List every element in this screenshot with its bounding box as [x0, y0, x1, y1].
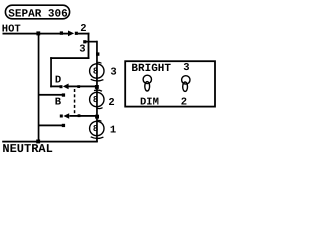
bulb icon left base ellipse — [145, 82, 150, 91]
svg-text:D: D — [55, 74, 61, 86]
lamp L1 circle — [90, 121, 104, 135]
connector pin (female) left on HOT line — [60, 31, 63, 34]
connector arrow (male) on HOT line — [68, 31, 74, 37]
svg-text:NEUTRAL: NEUTRAL — [2, 142, 52, 156]
wire B row to lamp chain — [69, 115, 97, 117]
svg-text:3: 3 — [183, 62, 189, 74]
wire horizontal circuit 2 to left — [50, 57, 89, 59]
wire HOT horizontal — [3, 33, 69, 35]
svg-text:8: 8 — [93, 67, 98, 77]
svg-text:B: B — [55, 96, 62, 108]
lamp L3 circle — [90, 64, 104, 78]
svg-text:1: 1 — [110, 125, 116, 137]
left vertical bus wire — [38, 33, 40, 143]
anchor square on B row — [78, 114, 81, 117]
wire vertical drop circuit 2 — [88, 33, 90, 59]
wire D row stub from circuit2 vertical — [50, 86, 60, 88]
lamp chain vertical wire — [96, 63, 98, 142]
connector pin D female — [60, 85, 63, 88]
connector pin D alternate — [62, 93, 65, 96]
svg-text:2: 2 — [181, 96, 187, 108]
anchor square on D row — [77, 85, 80, 88]
lamp L1 base arc — [91, 137, 104, 139]
dashed mechanical link line — [74, 89, 76, 113]
bulb icon right base ellipse — [183, 82, 188, 91]
junction dot on HOT at left vertical — [36, 31, 40, 35]
wire vertical circuit 2 down to D row — [50, 57, 52, 87]
junction dot on NEUTRAL at bus — [36, 140, 40, 144]
lamp L2 circle — [90, 92, 104, 106]
svg-text:8: 8 — [93, 124, 98, 134]
lamp L2 top arc — [94, 90, 102, 91]
svg-text:SEPAR 306: SEPAR 306 — [8, 8, 67, 20]
svg-text:8: 8 — [93, 95, 98, 105]
wire D row to lamp chain — [69, 86, 97, 88]
junction dot D row at lamp chain — [95, 85, 99, 89]
lamp L2 bottom cap dash — [97, 107, 103, 110]
svg-text:3: 3 — [110, 67, 116, 79]
connector pin (female) on HOT line — [75, 32, 78, 35]
title bubble SEPAR 306 — [5, 5, 69, 19]
wire circuit 3 horizontal — [85, 41, 98, 43]
junction dot B row at lamp chain — [95, 115, 99, 119]
connector pin B alternate — [62, 124, 65, 127]
wire NEUTRAL horizontal — [2, 141, 98, 143]
connector arrow B male — [63, 113, 69, 119]
bulb icon left circle — [143, 75, 151, 83]
svg-text:BRIGHT: BRIGHT — [131, 63, 171, 75]
connector pin B female — [60, 115, 63, 118]
wire circuit 3 vertical to lamp chain top — [96, 41, 98, 64]
svg-text:DIM: DIM — [140, 97, 159, 109]
connector pin circuit 3 line start — [83, 40, 86, 43]
junction square above lamp 3 — [96, 52, 99, 55]
wire stub B alternate from bus — [38, 125, 62, 127]
wire HOT to corner — [78, 33, 90, 35]
lamp L3 base arc — [91, 79, 104, 81]
lamp L1 top cap dash — [97, 119, 102, 122]
bulb icon right circle — [182, 76, 190, 84]
lamp L3 top cap dash — [97, 61, 102, 64]
svg-text:3: 3 — [79, 43, 85, 55]
svg-text:2: 2 — [108, 97, 114, 109]
connector arrow D male — [63, 84, 69, 90]
wire stub D alternate from bus — [38, 94, 62, 96]
switch legend box — [125, 61, 215, 106]
